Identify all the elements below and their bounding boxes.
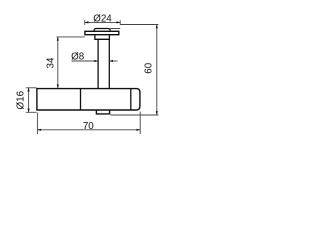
body divider right [130, 89, 132, 110]
svg-text:Ø8: Ø8 [71, 51, 85, 62]
dim 70 left extension [36, 113, 38, 135]
dim 60 arrow up [156, 25, 158, 29]
svg-text:70: 70 [83, 121, 94, 132]
dim Ø16 line [28, 88, 30, 113]
svg-text:Ø24: Ø24 [93, 14, 112, 25]
dim 60 arrow down [156, 111, 158, 115]
dim 34 arrow up [57, 37, 59, 41]
dim 60 top extension [120, 24, 158, 26]
dim Ø16 top extension [26, 87, 37, 89]
dim 34 arrow down [57, 85, 59, 89]
dim Ø16 arrow down [28, 109, 30, 113]
dim 34 top extension [57, 36, 85, 38]
dim Ø24 extension left [84, 20, 86, 25]
dim 34 line [57, 37, 59, 88]
dim Ø24 extension right [119, 20, 121, 25]
dim Ø24 arrow right [117, 21, 121, 23]
boss under flange [95, 35, 110, 39]
dim Ø8 right arrow [109, 60, 113, 62]
flange plate [85, 31, 119, 34]
dim Ø16 bottom extension [26, 111, 37, 113]
step line right of cap [110, 28, 120, 30]
dim 60 line [156, 25, 158, 116]
dim Ø8 right leader [109, 60, 117, 62]
dim Ø24 arrow left [85, 21, 89, 23]
dim Ø16 arrow up [28, 88, 30, 92]
dim 70 arrow right [137, 129, 141, 131]
dim 70 right extension [139, 112, 141, 135]
cap knob top [94, 29, 110, 32]
body outline [37, 89, 140, 110]
dim 70 arrow left [37, 129, 41, 131]
body divider left [80, 89, 82, 110]
dim Ø24 line [85, 21, 121, 23]
svg-text:34: 34 [46, 57, 57, 68]
dim 60 bottom extension [111, 114, 159, 116]
dim Ø8 left leader [72, 60, 99, 62]
dim 70 line [37, 129, 140, 131]
shaft right edge [108, 39, 110, 88]
svg-text:60: 60 [144, 62, 155, 73]
notch under body [96, 110, 109, 114]
shaft left edge [97, 39, 99, 88]
dim Ø8 left arrow [94, 60, 98, 62]
svg-text:Ø16: Ø16 [16, 90, 27, 109]
